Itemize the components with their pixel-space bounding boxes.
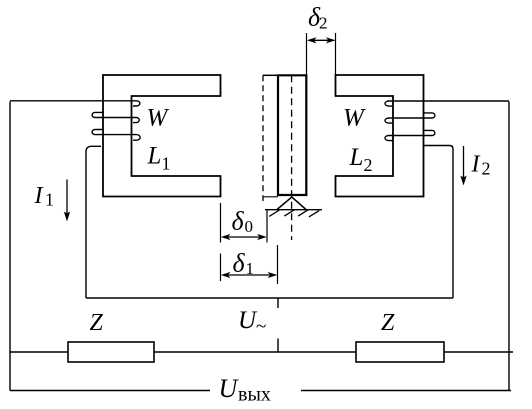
pivot support triangle (277, 197, 306, 210)
wire: middle rail segments (10, 351, 513, 353)
left core magnetic circuit of L1 (103, 75, 221, 197)
svg-text:2: 2 (319, 14, 328, 33)
armature ghost position (dashed) (262, 75, 264, 201)
pivot ground line (265, 209, 322, 211)
impedance Z1 (68, 342, 154, 362)
svg-text:L: L (349, 144, 364, 171)
svg-text:I: I (34, 183, 44, 209)
svg-text:0: 0 (245, 217, 254, 236)
dimension δ1 extension lines (221, 245, 278, 284)
svg-text:U: U (238, 307, 258, 334)
svg-text:вых: вых (238, 384, 271, 406)
svg-text:W: W (343, 105, 366, 132)
coil winding W of L1 (10, 101, 140, 298)
source U~ connector ticks (277, 298, 279, 352)
svg-text:δ: δ (232, 207, 245, 236)
impedance Z2 (356, 342, 444, 362)
svg-text:2: 2 (364, 155, 373, 175)
svg-text:Z: Z (90, 310, 104, 336)
svg-text:1: 1 (45, 190, 54, 210)
dimension δ2 arrow (310, 39, 332, 41)
current arrow I1 (66, 180, 68, 214)
right core magnetic circuit of L2 (336, 75, 424, 197)
armature (movable plunger) (278, 75, 306, 195)
svg-text:1: 1 (246, 259, 255, 278)
svg-text:1: 1 (162, 154, 171, 174)
output rail Uвых (10, 390, 511, 392)
wire: inner bottom (coil common) (86, 297, 453, 299)
svg-text:I: I (471, 152, 481, 178)
svg-text:L: L (147, 143, 162, 170)
current arrow I2 (463, 146, 465, 177)
dimension δ0 extension lines (221, 203, 268, 243)
armature top edge extension (263, 74, 278, 76)
dimension δ2 extension lines (307, 33, 336, 75)
wire: left outer vertical (9, 102, 11, 391)
coil winding W of L2 (385, 101, 509, 298)
armature bottom thin edge (263, 196, 278, 198)
svg-text:U: U (219, 374, 240, 403)
pivot ground hatching (269, 210, 319, 217)
armature center line (dashed) (291, 75, 293, 240)
svg-text:Z: Z (381, 310, 395, 336)
wire: right outer vertical (508, 102, 510, 391)
svg-text:~: ~ (256, 316, 266, 337)
dimension δ0 arrow (224, 236, 263, 238)
dimension δ1 arrow (224, 274, 274, 276)
svg-text:2: 2 (482, 159, 491, 179)
svg-text:δ: δ (233, 249, 246, 278)
svg-text:W: W (147, 105, 170, 132)
